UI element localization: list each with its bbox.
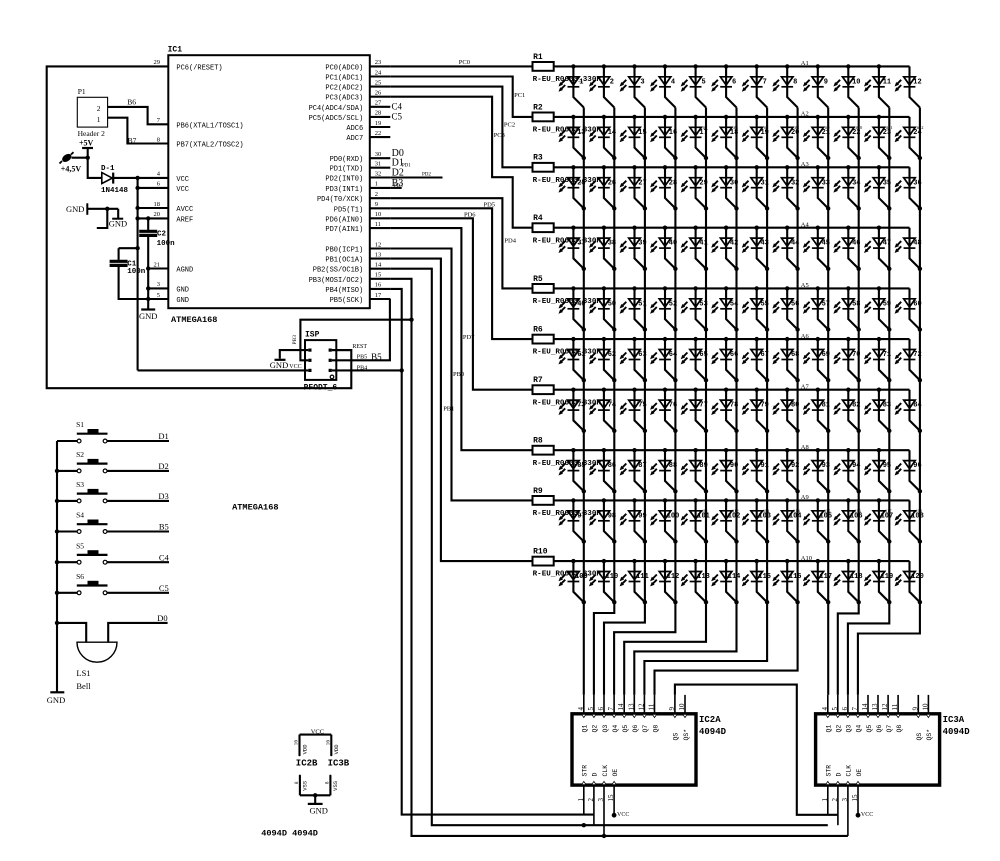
svg-text:R3: R3: [533, 154, 543, 163]
LED 69 (row 6, col 9): [803, 337, 831, 383]
svg-text:GND: GND: [139, 311, 157, 321]
LED 67 (row 6, col 7): [742, 337, 770, 383]
LED 52 (row 5, col 4): [650, 286, 678, 332]
svg-text:VSS: VSS: [302, 780, 309, 791]
svg-text:PC0: PC0: [459, 59, 470, 66]
svg-text:PC2(ADC2): PC2(ADC2): [325, 85, 363, 93]
svg-text:LS1: LS1: [76, 668, 90, 678]
svg-text:PC4(ADC4/SDA): PC4(ADC4/SDA): [309, 105, 364, 113]
LED 6 (row 1, col 6): [711, 64, 736, 107]
svg-text:GND: GND: [47, 695, 65, 705]
svg-text:A6: A6: [801, 333, 810, 340]
svg-text:S4: S4: [76, 511, 84, 520]
svg-text:PD1(TXD): PD1(TXD): [330, 166, 364, 174]
LED 25 (row 3, col 1): [559, 165, 587, 210]
LED 84 (row 7, col 12): [895, 390, 923, 433]
svg-text:PB0: PB0: [453, 371, 464, 378]
wire PD3 stub: [390, 187, 401, 189]
wire switch common bus: [56, 441, 58, 692]
IC1 pin 18 AVCC: [154, 201, 194, 214]
ground GND (AGND decoration): [66, 203, 127, 228]
svg-text:4094D: 4094D: [943, 727, 971, 737]
svg-text:Q7: Q7: [642, 725, 649, 733]
svg-text:9: 9: [668, 707, 676, 711]
svg-text:ADC6: ADC6: [346, 125, 363, 133]
LED 14 (row 2, col 2): [589, 115, 617, 160]
svg-text:22: 22: [375, 130, 382, 137]
IC1 pin 8 PB7(XTAL2/TOSC2): [157, 136, 244, 149]
svg-text:B6: B6: [127, 98, 136, 107]
svg-text:18: 18: [154, 201, 161, 208]
LED 16 (row 2, col 4): [650, 115, 678, 160]
svg-text:PB4: PB4: [357, 366, 367, 372]
svg-text:14: 14: [617, 703, 625, 711]
LED 43 (row 4, col 7): [742, 226, 770, 271]
svg-text:4094D: 4094D: [699, 727, 727, 737]
LED 63 (row 6, col 3): [620, 337, 648, 383]
LED 96 (row 8, col 12): [895, 450, 923, 493]
LED 4 (row 1, col 4): [650, 64, 675, 107]
svg-text:PD2(INT0): PD2(INT0): [325, 176, 363, 184]
LED 51 (row 5, col 3): [620, 286, 648, 332]
svg-text:PC0(ADC0): PC0(ADC0): [325, 64, 363, 72]
wire LS1 to D0 net: [108, 623, 167, 642]
svg-text:D2: D2: [158, 461, 168, 471]
LED 73 (row 7, col 1): [559, 388, 587, 433]
svg-text:15: 15: [607, 794, 615, 802]
svg-text:AREF: AREF: [176, 216, 193, 224]
wire net PB1 (pin13 to R10): [390, 259, 532, 561]
svg-text:AGND: AGND: [176, 267, 193, 275]
svg-text:STR: STR: [582, 765, 589, 777]
LED 34 (row 3, col 10): [833, 165, 861, 210]
wire net PD4 (pin2 to R5): [390, 198, 532, 288]
svg-text:5: 5: [157, 292, 160, 299]
svg-text:14: 14: [861, 703, 869, 711]
svg-text:PC5(ADC5/SCL): PC5(ADC5/SCL): [309, 115, 364, 123]
wire column 8 (cathode to 4094 Q8): [655, 108, 798, 695]
svg-text:30: 30: [375, 151, 382, 158]
svg-text:6: 6: [841, 707, 849, 711]
switch S1 (net D1): [57, 420, 169, 443]
LED 42 (row 4, col 6): [711, 226, 739, 271]
svg-text:GND: GND: [310, 805, 328, 815]
junction bus S3: [55, 499, 59, 503]
IC1 pin 6 VCC: [157, 181, 189, 194]
svg-text:S6: S6: [76, 572, 84, 581]
svg-text:C4: C4: [159, 552, 170, 562]
wire GND pin5: [148, 298, 168, 300]
svg-text:VCC: VCC: [289, 364, 301, 370]
resistor R1 330R: [533, 53, 602, 84]
wire net PD6 (pin10 to R7): [390, 218, 532, 389]
svg-text:C4: C4: [392, 101, 403, 111]
IC1 pin 31 PD1(TXD): [330, 161, 391, 174]
junction VCC at pin4: [135, 176, 139, 180]
svg-text:A5: A5: [801, 282, 809, 289]
svg-text:3: 3: [157, 281, 160, 288]
supply +4,5V: [60, 152, 82, 173]
junction GND pin3: [146, 286, 150, 290]
svg-text:PB1: PB1: [443, 405, 454, 412]
LED 32 (row 3, col 8): [772, 165, 799, 210]
svg-text:Q8: Q8: [652, 725, 659, 733]
wire column 5 (cathode to 4094 Q5): [624, 108, 706, 695]
LED 20 (row 2, col 8): [772, 115, 799, 160]
LED 92 (row 8, col 8): [772, 448, 799, 493]
svg-text:Q6: Q6: [632, 725, 639, 733]
junction VCC AVCC: [135, 206, 139, 210]
svg-text:S1: S1: [76, 420, 84, 429]
svg-text:OE: OE: [856, 769, 863, 777]
svg-text:100: 100: [667, 512, 680, 520]
IC1 pin 7 PB6(XTAL1/TOSC1): [157, 117, 244, 130]
svg-text:PD4: PD4: [504, 238, 516, 245]
capacitor C1 100n: [110, 246, 149, 299]
wire column 11 (cathode to 4094 Q3): [848, 108, 889, 695]
LED 23 (row 2, col 11): [864, 115, 892, 160]
svg-text:PC1(ADC1): PC1(ADC1): [325, 75, 363, 83]
svg-text:31: 31: [375, 161, 382, 168]
svg-text:A4: A4: [801, 222, 810, 229]
wire net PB3/CLK (pin15 to 4094 CLK): [390, 279, 848, 836]
junction PB4-ISP: [400, 368, 404, 372]
wire net PD5 (pin9 to R6): [390, 208, 532, 339]
resistor R2 330R: [533, 103, 602, 134]
LED 114 (row 10, col 6): [711, 559, 740, 605]
svg-text:PB3(MOSI/OC2): PB3(MOSI/OC2): [309, 277, 364, 285]
IC1 pin 13 PB1(OC1A): [325, 251, 390, 264]
svg-text:R6: R6: [533, 326, 543, 335]
svg-text:32: 32: [375, 170, 382, 177]
wire VCC to AVCC pin18: [138, 207, 169, 209]
svg-text:D: D: [836, 773, 843, 777]
svg-text:3: 3: [841, 798, 849, 802]
LED 58 (row 5, col 10): [833, 286, 861, 332]
LED 102 (row 9, col 6): [711, 498, 740, 544]
resistor R4 330R: [533, 214, 602, 245]
wire RESET net (pin29 - frame - ISP): [47, 66, 352, 388]
LED 9 (row 1, col 9): [803, 64, 828, 107]
IC1 pin 9 PD5(T1): [334, 201, 391, 214]
svg-text:Q1: Q1: [582, 725, 589, 733]
wire row A1: [554, 65, 910, 67]
LED 105 (row 9, col 9): [803, 498, 832, 544]
svg-text:28: 28: [375, 110, 382, 117]
svg-text:D-1: D-1: [101, 165, 115, 173]
svg-text:1: 1: [375, 181, 378, 188]
LED 86 (row 8, col 2): [589, 448, 617, 493]
svg-text:12: 12: [913, 78, 921, 86]
LED 94 (row 8, col 10): [833, 448, 861, 493]
svg-text:QS*: QS*: [926, 729, 933, 741]
LED 62 (row 6, col 2): [589, 337, 617, 383]
IC IC3A 4094D: [816, 695, 971, 836]
IC IC1 ATMEGA168 body: [168, 55, 369, 308]
svg-text:PC1: PC1: [514, 92, 525, 99]
wire ISP PB4 to PB4 net: [332, 369, 402, 371]
junction bus D0: [55, 621, 59, 625]
ground GND (switches): [47, 692, 65, 705]
svg-text:1#1: 1#1: [575, 399, 582, 404]
LED 99 (row 9, col 3): [620, 498, 648, 544]
LED 11 (row 1, col 11): [864, 64, 891, 107]
svg-text:PB7(XTAL2/TOSC2): PB7(XTAL2/TOSC2): [176, 142, 243, 150]
svg-text:26: 26: [375, 90, 382, 97]
svg-text:8: 8: [157, 136, 160, 143]
svg-text:16: 16: [294, 740, 300, 746]
IC1 pin 21 AGND: [154, 261, 194, 274]
svg-text:1: 1: [577, 798, 585, 802]
LED 106 (row 9, col 10): [833, 498, 862, 544]
LED 53 (row 5, col 5): [681, 286, 709, 332]
svg-text:1: 1: [97, 115, 101, 124]
svg-text:PD5(T1): PD5(T1): [334, 206, 363, 214]
IC1 pin 25 PC2(ADC2): [325, 79, 390, 92]
svg-text:1#2: 1#2: [606, 399, 613, 404]
svg-text:A10: A10: [801, 555, 812, 562]
LED 108 (row 9, col 12): [895, 500, 924, 543]
LED 38 (row 4, col 2): [589, 226, 617, 271]
LED 15 (row 2, col 3): [620, 115, 648, 160]
svg-text:ATMEGA168: ATMEGA168: [232, 502, 278, 512]
svg-text:ISP: ISP: [305, 330, 320, 339]
wire row A6: [554, 338, 910, 340]
wire row A8: [554, 449, 910, 451]
LED 54 (row 5, col 6): [711, 286, 739, 332]
LED 103 (row 9, col 7): [742, 498, 771, 544]
svg-text:10: 10: [852, 78, 860, 86]
resistor R7 330R: [533, 376, 602, 407]
svg-text:5: 5: [831, 707, 839, 711]
svg-text:117: 117: [819, 573, 832, 581]
svg-text:GND: GND: [176, 286, 189, 294]
svg-text:Q5: Q5: [866, 725, 873, 733]
wire net B6 (P1.2 - PB6): [108, 107, 169, 124]
svg-text:12: 12: [881, 703, 889, 711]
svg-text:15: 15: [851, 794, 859, 802]
label B3 net: [392, 178, 404, 189]
IC1 pin 28 PC5(ADC5/SCL): [309, 110, 391, 123]
svg-text:4: 4: [577, 707, 585, 711]
LED 50 (row 5, col 2): [589, 286, 617, 332]
svg-text:119: 119: [881, 573, 894, 581]
LED 21 (row 2, col 9): [803, 115, 831, 160]
svg-text:D2: D2: [392, 168, 404, 179]
wire column 7 (cathode to 4094 Q7): [644, 108, 767, 695]
svg-text:Q6: Q6: [876, 725, 883, 733]
resistor R5 330R: [533, 275, 602, 306]
LED 40 (row 4, col 4): [650, 226, 678, 271]
svg-text:115: 115: [758, 573, 771, 581]
LED 17 (row 2, col 5): [681, 115, 709, 160]
LED 12 (row 1, col 12): [895, 66, 922, 107]
LED 77 (row 7, col 5): [681, 388, 709, 433]
svg-text:PD4(T0/XCK): PD4(T0/XCK): [317, 196, 363, 204]
svg-text:OE: OE: [612, 769, 619, 777]
svg-text:S2: S2: [76, 450, 84, 459]
svg-text:IC3B: IC3B: [328, 758, 350, 768]
svg-text:R1: R1: [533, 53, 543, 62]
LED 76 (row 7, col 4): [650, 388, 678, 433]
svg-text:R2: R2: [533, 103, 543, 112]
IC1 pin 1 PD3(INT1): [325, 181, 390, 194]
IC1 pin 4 VCC: [157, 171, 189, 184]
svg-text:PD0(RXD): PD0(RXD): [330, 156, 364, 164]
svg-text:C2: C2: [157, 231, 167, 239]
svg-text:GND: GND: [66, 204, 84, 214]
wire row A4: [554, 227, 910, 229]
LED 70 (row 6, col 10): [833, 337, 861, 383]
wire D-1 cathode to VCC pins: [113, 177, 168, 179]
speaker LS1 Bell: [77, 642, 117, 662]
svg-text:5: 5: [701, 78, 705, 86]
svg-text:7: 7: [851, 707, 859, 711]
LED 57 (row 5, col 9): [803, 286, 831, 332]
LED 71 (row 6, col 11): [864, 337, 892, 383]
connector P1 Header 2: [77, 87, 107, 138]
LED 83 (row 7, col 11): [864, 388, 892, 433]
svg-text:Q2: Q2: [836, 725, 843, 733]
supply VCC (IC3A OE): [856, 812, 874, 818]
svg-text:VSS: VSS: [332, 780, 339, 791]
svg-text:REST: REST: [352, 344, 367, 350]
svg-text:3: 3: [640, 78, 644, 86]
svg-text:PB4(MISO): PB4(MISO): [325, 287, 363, 295]
svg-text:116: 116: [789, 573, 802, 581]
LED 18 (row 2, col 6): [711, 115, 739, 160]
wire row A3: [554, 166, 910, 168]
svg-text:Q8: Q8: [896, 725, 903, 733]
svg-text:QS*: QS*: [683, 729, 690, 741]
svg-text:+4,5V: +4,5V: [61, 164, 82, 173]
svg-text:110: 110: [606, 573, 619, 581]
LED 78 (row 7, col 6): [711, 388, 739, 433]
IC1 pin 29 PC6(/RESET): [154, 59, 223, 72]
svg-text:PB1(OC1A): PB1(OC1A): [325, 257, 363, 265]
LED 47 (row 4, col 11): [864, 226, 892, 271]
svg-text:20: 20: [154, 211, 161, 218]
svg-text:A7: A7: [801, 384, 810, 391]
LED 87 (row 8, col 3): [620, 448, 648, 493]
svg-text:Q2: Q2: [592, 725, 599, 733]
svg-text:R9: R9: [533, 487, 543, 496]
LED 112 (row 10, col 4): [650, 559, 679, 605]
svg-text:PC6(/RESET): PC6(/RESET): [176, 64, 222, 72]
svg-text:Q1: Q1: [826, 725, 833, 733]
wire column 1 (cathode to 4094 Q1): [583, 108, 585, 695]
wire net PC0 (pin23 to R1): [390, 65, 532, 67]
LED 26 (row 3, col 2): [589, 165, 617, 210]
LED 48 (row 4, col 12): [895, 228, 923, 271]
wire VCC to ISP: [138, 369, 309, 371]
svg-text:1#3: 1#3: [636, 399, 644, 404]
label D2 net: [392, 168, 432, 179]
IC1 pin 22 ADC7: [346, 130, 390, 143]
wire row A7: [554, 389, 910, 391]
svg-text:8: 8: [294, 781, 300, 784]
junction VCC pin6: [135, 186, 139, 190]
svg-text:QS: QS: [673, 733, 680, 741]
svg-text:VCC: VCC: [861, 812, 873, 818]
LED 2 (row 1, col 2): [589, 64, 614, 107]
wire VCC to pin6: [138, 187, 169, 189]
svg-text:PB5(SCK): PB5(SCK): [330, 297, 364, 305]
svg-text:7: 7: [607, 707, 615, 711]
svg-text:R5: R5: [533, 275, 543, 284]
svg-text:PD3(INT1): PD3(INT1): [325, 186, 363, 194]
LED 101 (row 9, col 5): [681, 498, 710, 544]
svg-text:114: 114: [728, 573, 741, 581]
LED 119 (row 10, col 11): [864, 559, 893, 605]
IC1 pin 19 ADC6: [346, 120, 390, 133]
svg-text:27: 27: [375, 100, 382, 107]
LED 1 (row 1, col 1): [559, 64, 584, 107]
svg-text:111: 111: [636, 573, 649, 581]
svg-text:R4: R4: [533, 214, 543, 223]
resistor R6 330R: [533, 326, 602, 357]
switch S3 (net D3): [57, 480, 169, 503]
svg-text:10: 10: [375, 211, 382, 218]
svg-text:113: 113: [697, 573, 710, 581]
wire +4,5V to +5V node: [72, 157, 88, 159]
LED 39 (row 4, col 3): [620, 226, 648, 271]
svg-text:Bell: Bell: [76, 681, 91, 691]
IC1 pin 11 PD7(AIN1): [325, 221, 390, 234]
LED 104 (row 9, col 8): [772, 498, 801, 544]
IC IC2A 4094D: [572, 695, 727, 836]
LED 120 (row 10, col 12): [895, 561, 924, 604]
LED 81 (row 7, col 9): [803, 388, 831, 433]
LED 90 (row 8, col 6): [711, 448, 739, 493]
IC1 pin 20 AREF: [154, 211, 194, 224]
IC1 pin 23 PC0(ADC0): [325, 59, 390, 72]
IC1 pin 16 PB4(MISO): [325, 282, 390, 295]
LED 55 (row 5, col 7): [742, 286, 770, 332]
LED 109 (row 10, col 1): [559, 559, 588, 605]
svg-text:118: 118: [850, 573, 863, 581]
wire cascade QS IC2A to D IC3A: [675, 685, 838, 815]
svg-text:16: 16: [375, 282, 382, 289]
LED 72 (row 6, col 12): [895, 339, 923, 382]
diode D-1 1N4148: [101, 165, 129, 195]
wire column 4 (cathode to 4094 Q4): [614, 108, 675, 695]
svg-text:CLK: CLK: [846, 765, 853, 777]
svg-text:IC2A: IC2A: [699, 715, 721, 725]
LED 29 (row 3, col 5): [681, 165, 709, 210]
svg-text:D: D: [592, 773, 599, 777]
wire row A2: [554, 116, 910, 118]
wire net PB4/D (pin16 to 4094 D): [390, 289, 594, 815]
svg-text:VCC: VCC: [617, 812, 629, 818]
svg-text:10: 10: [921, 703, 929, 711]
switch S2 (net D2): [57, 450, 169, 473]
wire ISP REST stub: [332, 349, 352, 351]
LED 7 (row 1, col 7): [742, 64, 767, 107]
LED 30 (row 3, col 6): [711, 165, 739, 210]
svg-text:S5: S5: [76, 541, 84, 550]
svg-text:15: 15: [375, 272, 382, 279]
svg-text:13: 13: [375, 251, 382, 258]
LED 82 (row 7, col 10): [833, 388, 861, 433]
svg-text:A1: A1: [801, 60, 809, 67]
svg-text:24: 24: [375, 69, 382, 76]
svg-text:4094D 4094D: 4094D 4094D: [261, 829, 318, 839]
svg-text:8: 8: [793, 78, 797, 86]
IC1 pin 32 PD2(INT0): [325, 170, 390, 183]
wire net PB0 (pin12 to R9): [390, 249, 532, 501]
svg-text:1: 1: [579, 78, 583, 86]
